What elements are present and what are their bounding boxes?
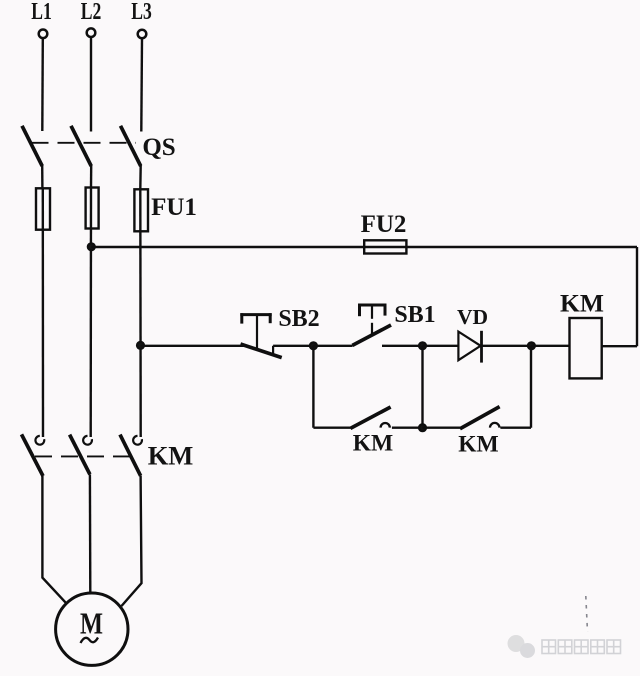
pushbutton SB2 (NC stop button)	[240, 313, 281, 357]
label KM (aux 2)	[458, 432, 498, 458]
label FU1	[151, 194, 197, 221]
pushbutton SB1 (NO start button)	[352, 304, 391, 346]
junction node at L3 / control branch	[137, 342, 144, 349]
wire node to KM coil	[531, 345, 569, 347]
diode VD	[458, 331, 481, 363]
wire phase L1 fuse to KM contact	[42, 188, 45, 437]
wire node to VD	[423, 345, 459, 347]
watermark logo	[508, 635, 536, 658]
label L1	[31, 0, 52, 25]
svg-text:L1: L1	[31, 0, 52, 25]
wire KM coil to right drop	[602, 345, 637, 347]
wire L2 terminal to QS	[90, 37, 92, 131]
wire KM pole1 to motor	[42, 476, 66, 603]
wire VD to node	[482, 345, 532, 347]
svg-text:QS: QS	[142, 134, 175, 161]
contact KM main pole 2	[70, 435, 92, 475]
junction node diode right	[528, 342, 535, 349]
switch QS pole 2	[71, 126, 91, 188]
fuse FU1 pole 1	[36, 188, 50, 229]
terminal L3	[138, 30, 147, 39]
svg-text:FU2: FU2	[361, 211, 407, 238]
wire aux1 to node	[392, 427, 423, 429]
svg-text:KM: KM	[148, 441, 194, 471]
svg-text:FU1: FU1	[151, 194, 197, 221]
wire branch vertical left	[312, 346, 314, 428]
svg-text:L2: L2	[81, 0, 102, 25]
switch QS pole 1	[22, 126, 42, 189]
wire branch vertical middle	[421, 346, 423, 428]
svg-text:SB1: SB1	[394, 302, 435, 328]
label QS	[142, 134, 175, 161]
QS mechanical linkage (dashed)	[32, 142, 137, 144]
wire node to SB1	[313, 345, 352, 347]
wire L1 terminal to QS	[41, 38, 44, 131]
junction node diode left	[419, 342, 426, 349]
fuse FU1 pole 2	[86, 188, 99, 229]
fuse FU2	[364, 240, 406, 253]
wire L3 node to SB2	[141, 345, 244, 347]
wire bottom branch left	[313, 427, 350, 429]
coil KM	[570, 318, 602, 378]
label VD	[457, 305, 488, 329]
contact KM auxiliary 1 (NO, self-latch)	[350, 407, 390, 428]
label M	[80, 606, 103, 641]
watermark dashed mark	[586, 596, 588, 632]
wire branch vertical right	[530, 346, 532, 428]
wire SB1 to node	[382, 345, 423, 347]
label KM (aux 1)	[353, 431, 393, 457]
svg-text:KM: KM	[353, 431, 393, 457]
contact KM main pole 3	[120, 435, 142, 476]
motor AC tilde	[81, 638, 99, 644]
label SB2	[278, 306, 319, 332]
wire right side vertical drop	[636, 247, 638, 346]
wire KM pole2 to motor	[89, 474, 92, 593]
contact KM main pole 1	[22, 434, 45, 476]
label L3	[131, 0, 152, 25]
svg-text:VD: VD	[457, 305, 488, 329]
switch QS pole 3	[121, 126, 141, 190]
svg-text:M: M	[80, 606, 103, 641]
wire node to aux2	[423, 427, 461, 429]
wire phase L3 fuse to KM contact	[139, 190, 142, 438]
wire aux2 to right branch	[500, 427, 531, 429]
wire phase L2 fuse to KM contact	[89, 188, 92, 438]
motor M circle	[56, 593, 128, 665]
fuse FU1 pole 3	[134, 189, 148, 231]
junction node bottom middle	[419, 424, 426, 431]
wire control feed top horizontal	[91, 246, 637, 248]
junction node at L2 / control feed	[88, 243, 95, 250]
terminal L2	[87, 28, 96, 37]
watermark text 弱电行业网 (approximated)	[542, 640, 621, 654]
KM mechanical linkage (dashed)	[35, 455, 139, 457]
wire SB2 to node	[273, 345, 313, 347]
wire KM pole3 to motor	[122, 476, 142, 606]
terminal L1	[39, 30, 48, 39]
junction node SB1 branch left	[310, 342, 317, 349]
label FU2	[361, 211, 407, 238]
label SB1	[394, 302, 435, 328]
label KM (main contacts)	[148, 441, 194, 471]
svg-text:KM: KM	[458, 432, 498, 458]
svg-text:L3: L3	[131, 0, 152, 25]
svg-text:SB2: SB2	[278, 306, 319, 332]
label KM (coil)	[560, 289, 604, 318]
wire L3 terminal to QS	[140, 38, 143, 131]
label L2	[81, 0, 102, 25]
svg-text:KM: KM	[560, 289, 604, 318]
contact KM auxiliary 2 (NO, shorts VD)	[460, 407, 500, 429]
